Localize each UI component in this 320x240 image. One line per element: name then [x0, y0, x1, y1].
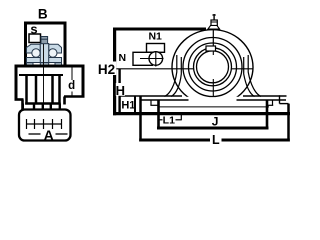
svg-text:H2: H2 [98, 62, 115, 77]
svg-text:L1: L1 [163, 114, 175, 126]
svg-text:J: J [212, 114, 219, 128]
svg-text:L: L [212, 133, 220, 147]
svg-text:H1: H1 [121, 100, 135, 112]
svg-text:N: N [119, 52, 127, 64]
svg-text:d: d [68, 80, 75, 92]
svg-text:N1: N1 [148, 30, 162, 42]
svg-text:B: B [38, 7, 48, 22]
svg-text:A: A [44, 127, 54, 143]
svg-text:H: H [116, 83, 125, 98]
